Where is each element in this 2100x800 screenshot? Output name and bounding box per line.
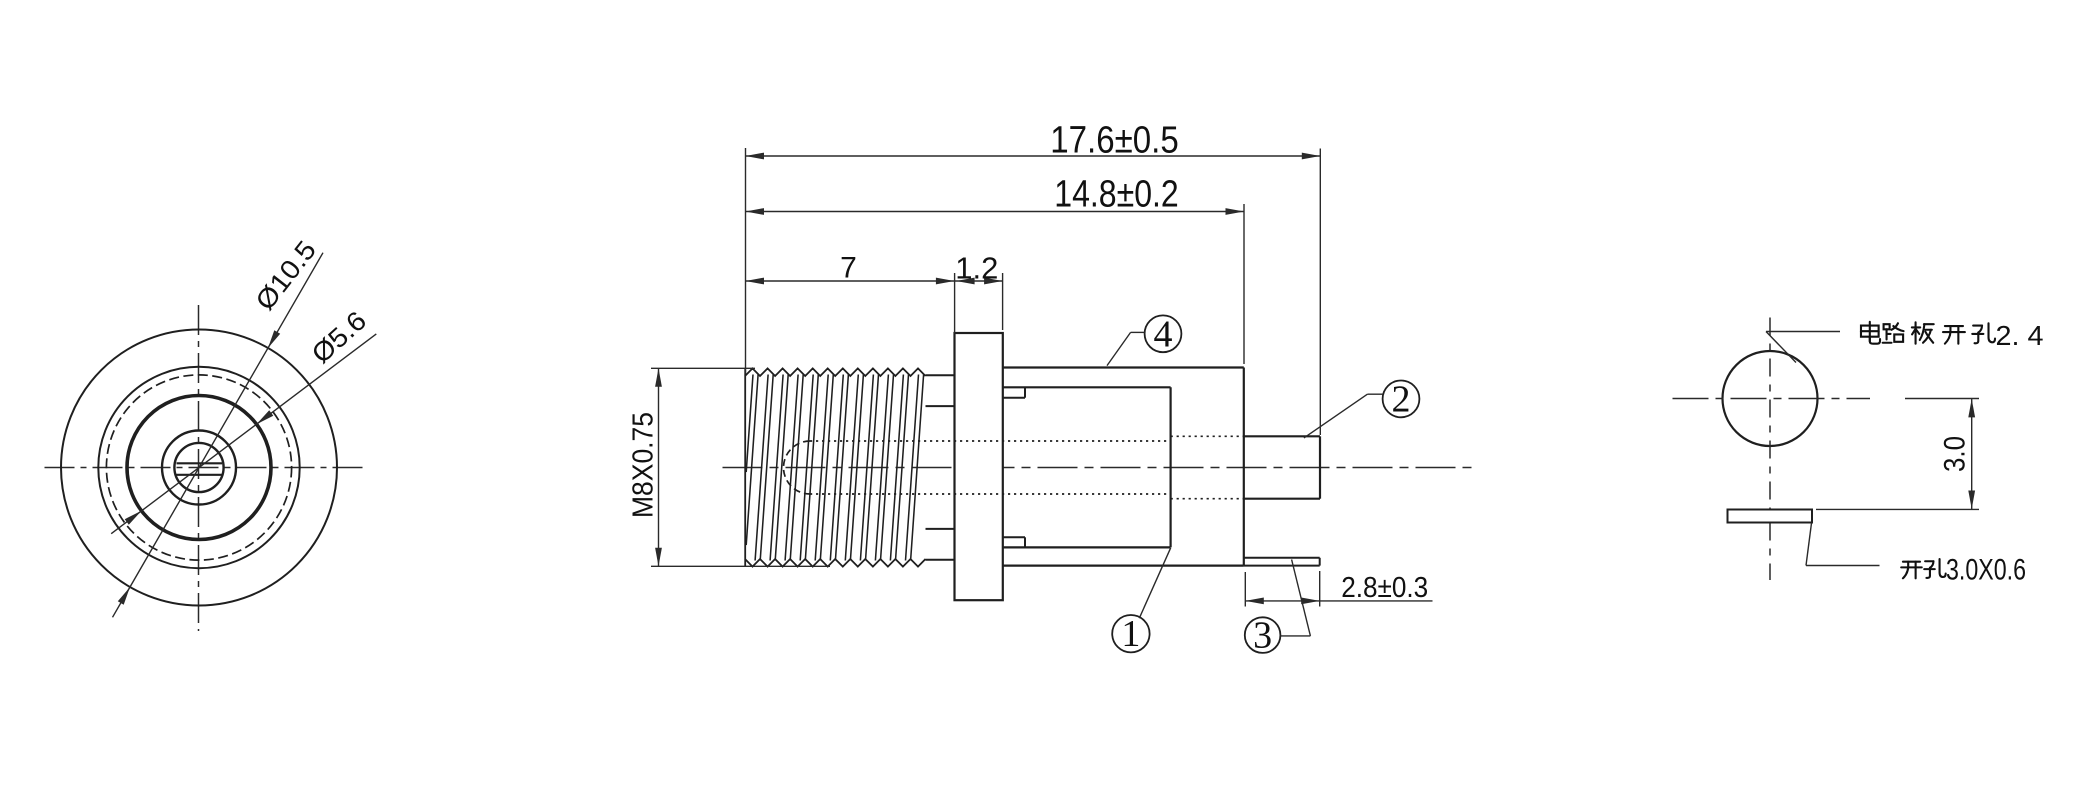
barrel step notch bottom xyxy=(1003,536,1025,538)
inner barrel outline item 1 xyxy=(1003,386,1171,388)
svg-text:17.6±0.5: 17.6±0.5 xyxy=(1050,119,1179,161)
label 开孔3.0X0.6 xyxy=(1901,562,1922,579)
center pin slot flat xyxy=(177,462,223,464)
hidden bore dotted lines narrow xyxy=(810,440,1171,442)
front view horizontal centerline xyxy=(45,467,363,469)
thread top crest zigzag xyxy=(745,368,926,376)
svg-text:1: 1 xyxy=(1121,613,1140,655)
dimension 7 xyxy=(746,280,955,282)
solder lug item 3 xyxy=(1244,557,1320,559)
CJK 路 xyxy=(1883,323,1904,343)
balloon 1 callout xyxy=(1112,615,1149,652)
CJK 电 xyxy=(1861,322,1880,344)
hex flange rectangle xyxy=(955,333,1003,600)
balloon 3 callout xyxy=(1245,617,1281,653)
dashed thread root circle xyxy=(106,375,291,560)
center pin item 2 xyxy=(1244,435,1320,437)
CJK 孔 xyxy=(1972,323,1995,343)
dimension 14.8±0.2 xyxy=(1243,204,1245,364)
diameter dimension line Ø5.6 xyxy=(111,334,376,534)
circle center pin xyxy=(174,443,223,492)
dimension M8X0.75 xyxy=(651,367,755,369)
pcb vertical centerline xyxy=(1769,318,1771,581)
main horizontal centerline xyxy=(723,467,1479,469)
svg-text:7: 7 xyxy=(840,252,857,285)
svg-text:2.8±0.3: 2.8±0.3 xyxy=(1341,572,1428,604)
thread bottom crest zigzag xyxy=(745,559,926,567)
svg-text:1.2: 1.2 xyxy=(955,251,998,286)
solder lug side profile xyxy=(1728,510,1813,523)
dimension 2.8±0.3 xyxy=(1244,572,1246,607)
case outline item 4 xyxy=(1003,366,1244,368)
thread flank helix lines xyxy=(746,375,923,561)
thread start end-face edge xyxy=(744,368,746,566)
svg-text:3: 3 xyxy=(1253,615,1272,657)
CJK 板 xyxy=(1912,322,1934,343)
svg-text:2. 4: 2. 4 xyxy=(1996,320,2044,351)
leader for pcb hole label xyxy=(1766,331,1840,333)
thick circle bushing OD 10.5 xyxy=(127,396,271,540)
hidden bore dashed cap xyxy=(784,441,811,494)
dimension 1.2 xyxy=(954,273,956,334)
diameter dimension line Ø10.5 xyxy=(113,253,324,618)
front view vertical centerline xyxy=(198,305,200,631)
pcb hole circle xyxy=(1723,351,1818,446)
outer circle (nut flange OD) xyxy=(61,330,337,606)
svg-text:3.0: 3.0 xyxy=(1939,436,1972,472)
svg-text:2: 2 xyxy=(1392,378,1411,420)
balloon 4 callout xyxy=(1145,315,1182,352)
svg-text:4: 4 xyxy=(1154,313,1173,355)
hidden bore dotted lines wide xyxy=(1171,435,1244,437)
CJK 开 xyxy=(1943,326,1965,344)
thread runout neck bottom xyxy=(926,559,955,561)
circle thread OD xyxy=(98,367,299,568)
leader for slot label xyxy=(1806,523,1812,566)
pcb horizontal centerline xyxy=(1673,398,1871,400)
circle inner bore 5.6 xyxy=(162,431,236,505)
balloon 2 callout xyxy=(1383,381,1420,418)
svg-text:3.0X0.6: 3.0X0.6 xyxy=(1946,554,2026,587)
svg-text:M8X0.75: M8X0.75 xyxy=(627,412,659,518)
svg-text:14.8±0.2: 14.8±0.2 xyxy=(1054,173,1179,215)
barrel step notch top xyxy=(1003,397,1025,399)
thread runout neck top xyxy=(926,374,955,376)
dimension 3.0 xyxy=(1905,398,1979,400)
dimension 17.6±0.5 xyxy=(745,148,747,374)
